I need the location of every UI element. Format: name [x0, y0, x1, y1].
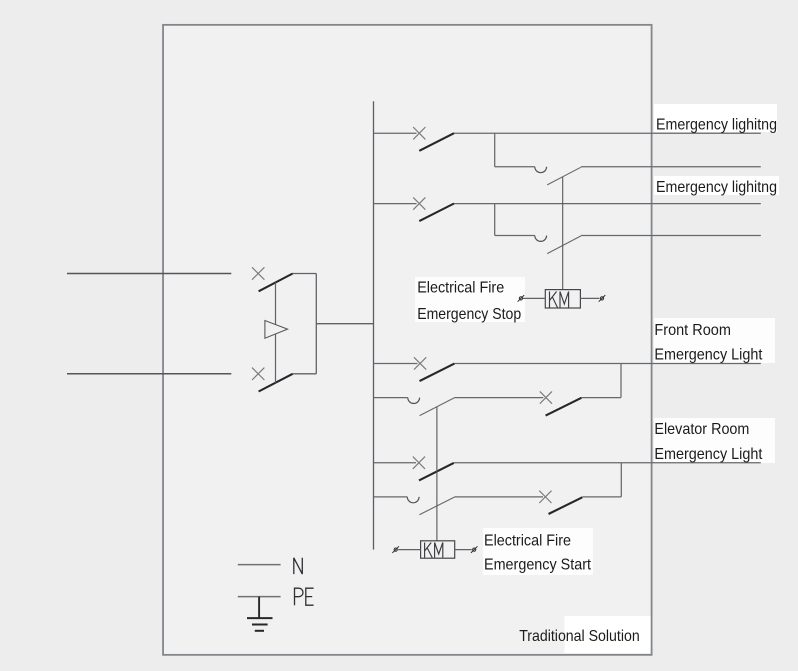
label mask Electrical Fire Emergency Start — [483, 528, 593, 575]
svg-text:Emergency Light: Emergency Light — [654, 446, 762, 463]
label mask Electrical Fire Emergency Stop — [415, 277, 525, 322]
label mask Emergency lighitng 1 — [654, 104, 777, 132]
svg-text:Elevator Room: Elevator Room — [654, 421, 749, 438]
svg-text:Emergency lighitng: Emergency lighitng — [656, 179, 777, 196]
wire coil KM2 left lead — [398, 549, 421, 551]
row A4: KM contact row 2 wire — [495, 235, 761, 237]
switch B2 blade — [546, 398, 582, 416]
contact KM arc row A2 — [535, 167, 547, 173]
wire coil KM2 right lead — [455, 549, 472, 551]
svg-text:Electrical Fire: Electrical Fire — [484, 533, 571, 550]
coil KM1 letters KM — [550, 292, 569, 308]
breaker QF linkage — [275, 283, 277, 383]
breaker QF main pole 1 blade — [259, 274, 293, 292]
label mask Emergency lighitng 2 — [654, 176, 779, 195]
switch B2 X mark — [540, 391, 552, 403]
coil KM2 box — [421, 541, 455, 558]
wire breaker output vertical — [315, 274, 317, 374]
ground PE symbol — [247, 597, 273, 631]
wire coil KM1 right lead — [580, 297, 599, 299]
terminal glyph KM2 right — [471, 546, 478, 553]
node PE line — [238, 596, 281, 598]
wire incoming line L1 — [67, 273, 231, 275]
svg-text:Traditional Solution: Traditional Solution — [519, 628, 640, 645]
contact KM blade row A2 — [547, 167, 581, 185]
label mask Traditional Solution — [565, 616, 652, 653]
node N line — [238, 564, 281, 566]
enclosure inner fill — [163, 25, 652, 655]
wire incoming line L2 — [67, 373, 231, 375]
label mask Elevator Room Emergency Light — [654, 418, 775, 463]
row C1: elevator room breaker row wire — [374, 462, 761, 464]
wire pole 2 load side — [293, 373, 317, 375]
switch A1 X mark — [413, 127, 425, 139]
breaker QF trip unit triangle — [265, 321, 288, 339]
switch A3 X mark — [413, 197, 425, 209]
label N — [294, 558, 303, 574]
wire T-drop C1-C2 — [620, 463, 622, 497]
breaker QF main pole 2 X mark — [252, 368, 264, 380]
row A1: breaker row 1 wire — [374, 132, 761, 134]
linkage KM2 contacts to coil — [436, 407, 438, 541]
svg-text:Emergency Light: Emergency Light — [654, 346, 762, 363]
row C2: elevator room contact row wire — [374, 496, 622, 498]
wire pole 1 load side — [293, 273, 317, 275]
linkage KM1 contacts to coil — [562, 177, 564, 290]
svg-text:Front Room: Front Room — [654, 322, 731, 339]
wire drop A3-A4 — [494, 204, 496, 236]
contact KM2 blade row C2 — [419, 497, 454, 515]
terminal glyph KM1 right — [599, 295, 606, 302]
contact KM2 blade row B2 — [420, 398, 455, 416]
svg-text:Emergency Stop: Emergency Stop — [417, 306, 521, 323]
contact KM arc row A4 — [535, 236, 547, 242]
contact KM2 arc row B2 — [408, 398, 420, 404]
switch C1 blade — [419, 463, 454, 481]
wire drop A1-A2 — [494, 133, 496, 167]
label mask Front Room Emergency Light — [654, 318, 775, 363]
wire T-drop B1-B2 — [620, 364, 622, 398]
coil KM1 box — [545, 290, 580, 308]
wire breaker to bus — [316, 323, 373, 325]
switch B1 blade — [420, 364, 455, 382]
terminal glyph KM2 left — [392, 546, 399, 553]
contact KM blade row A4 — [547, 236, 581, 254]
switch B1 X mark — [414, 357, 426, 369]
breaker QF main pole 1 X mark — [252, 267, 264, 279]
switch A1 blade — [419, 133, 454, 151]
svg-text:Emergency lighitng: Emergency lighitng — [656, 116, 777, 133]
row A3: breaker row 2 wire — [374, 203, 761, 205]
switch C2 X mark — [539, 491, 551, 503]
label PE — [295, 588, 314, 605]
contact KM2 arc row C2 — [407, 497, 419, 503]
row A2: KM contact row 1 wire — [495, 166, 761, 168]
svg-text:Electrical Fire: Electrical Fire — [417, 280, 504, 297]
wire coil KM1 left lead — [523, 297, 545, 299]
switch C2 blade — [549, 497, 583, 514]
coil KM2 letters KM — [425, 543, 443, 558]
switch A3 blade — [419, 204, 454, 222]
row B2: front room contact row wire — [374, 397, 622, 399]
breaker QF main pole 2 blade — [259, 374, 293, 392]
enclosure border — [163, 25, 652, 655]
switch C1 X mark — [413, 457, 425, 469]
row B1: front room breaker row wire — [374, 363, 761, 365]
svg-text:Emergency Start: Emergency Start — [484, 556, 591, 573]
terminal glyph KM1 left — [518, 295, 525, 302]
bus vertical — [373, 101, 375, 549]
